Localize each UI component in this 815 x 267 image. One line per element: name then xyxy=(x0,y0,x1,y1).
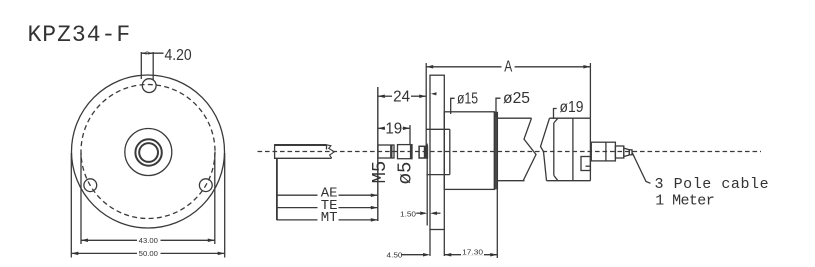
svg-text:ø5: ø5 xyxy=(394,162,416,185)
wire AE arrow xyxy=(371,193,378,197)
svg-text:M5: M5 xyxy=(369,161,391,184)
flange ext lines down xyxy=(429,230,431,257)
svg-text:19: 19 xyxy=(385,121,402,138)
break jag right xyxy=(541,118,550,181)
wire MT arrow xyxy=(371,218,378,222)
svg-text:1.50: 1.50 xyxy=(400,210,416,219)
step3 xyxy=(624,148,630,156)
stud shaft o5 xyxy=(398,145,413,159)
stud M5 thread body xyxy=(378,145,394,158)
wire TE line xyxy=(277,207,318,209)
sleeve chamfer bottom xyxy=(554,175,558,180)
dim 24 arrows xyxy=(378,94,426,98)
dim 24 line xyxy=(378,95,392,97)
dim A line xyxy=(426,66,501,68)
hub outer circle xyxy=(125,129,172,176)
dim 50.00 arrows xyxy=(71,252,224,256)
svg-text:ø25: ø25 xyxy=(503,90,530,107)
tab extension line left xyxy=(140,52,142,79)
keyway tab xyxy=(581,157,590,171)
svg-text:3 Pole cable: 3 Pole cable xyxy=(655,176,770,193)
svg-text:MT: MT xyxy=(321,210,338,226)
svg-text:17.30: 17.30 xyxy=(462,248,483,257)
ext line 50 right xyxy=(224,153,226,258)
front view outer circle xyxy=(72,75,225,228)
step2 xyxy=(615,146,623,158)
cylinder o25 xyxy=(444,112,494,190)
shaft right face xyxy=(589,118,591,181)
boss hidden bottom line xyxy=(426,174,449,176)
svg-text:24: 24 xyxy=(393,88,410,105)
svg-text:ø19: ø19 xyxy=(560,99,584,116)
sleeve left face xyxy=(553,123,555,175)
stud end block dark cap xyxy=(424,146,428,158)
svg-text:50.00: 50.00 xyxy=(139,249,158,258)
dim 4.20 line xyxy=(141,52,163,54)
bolt hole lower-right xyxy=(199,179,212,192)
shaft o19 top edge (right of break) xyxy=(550,117,591,119)
dim 43.00 line xyxy=(81,239,137,241)
ext line 43 left xyxy=(80,153,82,244)
wire TE arrow xyxy=(371,206,378,210)
ext line 19 right xyxy=(409,125,411,145)
svg-text:4.50: 4.50 xyxy=(387,250,403,259)
sleeve right line xyxy=(572,118,574,181)
centerline (dashed axis) xyxy=(258,151,762,153)
wire bundle vertical xyxy=(276,158,278,220)
dim 50.00 line xyxy=(71,252,137,254)
cable break (tear) symbol xyxy=(327,145,335,158)
dim 19 arrows xyxy=(378,127,410,131)
leader o15 xyxy=(451,98,455,114)
dim A arrows xyxy=(426,65,590,69)
svg-text:43.00: 43.00 xyxy=(139,236,158,245)
leader 3 pole cable xyxy=(632,153,650,184)
dim 43.00 arrows xyxy=(81,239,215,243)
svg-text:KPZ34-F: KPZ34-F xyxy=(28,22,132,48)
wire MT line xyxy=(277,219,318,221)
svg-text:4.20: 4.20 xyxy=(165,47,192,64)
boss hidden top line xyxy=(426,128,449,130)
bolt hole lower-left xyxy=(84,179,97,192)
svg-text:ø15: ø15 xyxy=(457,91,478,108)
shaft o19 top edge (left of break) xyxy=(497,117,531,119)
break jag left xyxy=(523,118,536,181)
ext line A right xyxy=(589,63,591,118)
hub bore circle xyxy=(139,143,158,162)
dim 19 line xyxy=(378,127,385,129)
tip nub xyxy=(629,150,632,155)
leader o25 xyxy=(496,98,501,117)
dim 17.30 text xyxy=(461,247,484,256)
bolt hole top xyxy=(142,79,156,93)
ext line 50 left xyxy=(70,153,72,258)
front view bolt circle (dashed) xyxy=(81,85,215,219)
ext line A/24 left xyxy=(425,63,427,147)
cable body rectangle xyxy=(275,145,332,159)
stud o5 end line (thick) xyxy=(410,145,412,159)
ext line 17.30 right xyxy=(496,189,498,258)
tab extension line right xyxy=(152,52,154,80)
o25 face plate (dark) xyxy=(494,112,497,190)
common extension line (24/19 dims, wire target) xyxy=(377,87,379,221)
boss face line xyxy=(449,129,451,174)
shaft o19 bottom edge (right of break) xyxy=(547,180,591,182)
svg-text:A: A xyxy=(504,59,512,76)
hub ring outer xyxy=(135,139,161,165)
flange plate xyxy=(430,75,444,229)
collar xyxy=(591,142,615,161)
arrow mark at flange xyxy=(431,92,437,95)
collar inner line xyxy=(605,142,607,161)
ext line 43 right xyxy=(214,153,216,244)
sleeve chamfer top xyxy=(554,118,558,123)
shaft o19 bottom edge (left of break) xyxy=(497,180,524,182)
wire AE line xyxy=(277,194,318,196)
stud end block xyxy=(419,146,427,158)
gasket line (1.50 feature) xyxy=(426,144,428,226)
svg-text:1 Meter: 1 Meter xyxy=(655,192,714,209)
dim 4.20 arrows xyxy=(141,51,153,55)
leader o19 xyxy=(554,109,557,120)
stud M5 thread end line xyxy=(390,145,392,158)
dim 17.30 line xyxy=(444,254,497,256)
